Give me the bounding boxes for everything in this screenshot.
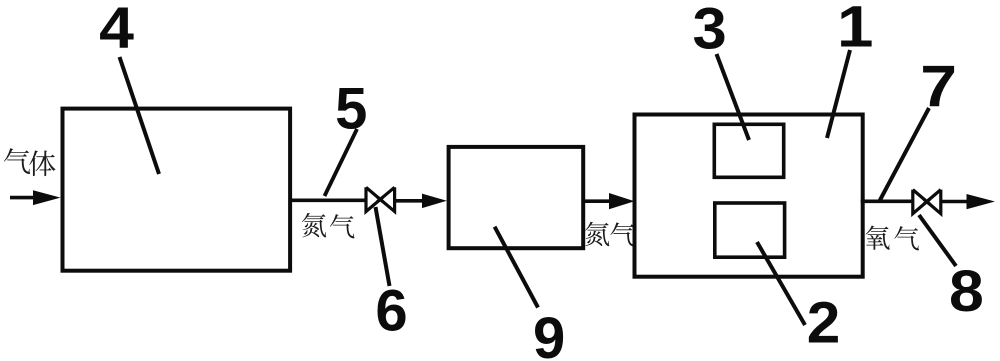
inner box 2 (lower module) bbox=[715, 203, 785, 257]
label 氮气 (nitrogen, before box 1) bbox=[585, 222, 635, 247]
svg-text:6: 6 bbox=[375, 279, 407, 344]
svg-text:2: 2 bbox=[807, 290, 841, 356]
wire: valve6 to box 9 with arrowhead bbox=[395, 194, 447, 209]
leader line 5 bbox=[325, 129, 358, 196]
label 气体 (gas inlet) bbox=[4, 148, 56, 176]
leader line 2 bbox=[757, 242, 805, 325]
svg-text:5: 5 bbox=[335, 76, 367, 141]
wire: box9 to box1 with arrowhead bbox=[583, 193, 635, 209]
svg-text:9: 9 bbox=[533, 306, 565, 361]
svg-text:4: 4 bbox=[99, 0, 134, 60]
leader line 9 bbox=[495, 227, 538, 308]
svg-text:7: 7 bbox=[920, 55, 957, 119]
leader line 7 bbox=[880, 108, 930, 201]
leader line 3 bbox=[717, 54, 750, 140]
box 1 (oxygen generator) bbox=[635, 115, 863, 277]
wire: inlet arrow into box 4 bbox=[10, 190, 61, 205]
leader line 1 bbox=[827, 50, 850, 138]
box 4 (separation unit) bbox=[63, 109, 291, 271]
svg-text:8: 8 bbox=[949, 258, 984, 323]
svg-text:1: 1 bbox=[837, 0, 873, 60]
leader line 8 bbox=[919, 215, 956, 266]
valve 8 (bowtie symbol) bbox=[913, 190, 941, 214]
svg-text:3: 3 bbox=[693, 0, 727, 61]
wire: box1 to valve 8 bbox=[861, 200, 913, 204]
leader line 6 bbox=[376, 207, 390, 286]
inner box 3 (upper module) bbox=[714, 124, 783, 177]
box 9 (buffer unit) bbox=[449, 147, 584, 248]
label 氮气 (nitrogen, after box 4) bbox=[302, 213, 355, 238]
label 氧气 (oxygen outlet) bbox=[865, 226, 919, 251]
leader line 4 bbox=[120, 57, 160, 174]
wire: valve8 outlet arrow bbox=[941, 194, 995, 209]
wire: box4 to valve 6 bbox=[291, 199, 367, 203]
valve 6 (bowtie symbol) bbox=[366, 187, 395, 211]
